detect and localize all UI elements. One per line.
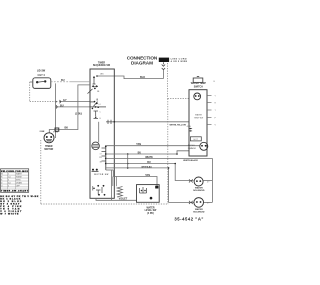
hot water solenoid [194, 177, 203, 186]
console boundary dashed (lower) [41, 140, 169, 204]
svg-text:TEMP SW: TEMP SW [194, 118, 203, 120]
timer contacts cluster A [92, 85, 94, 87]
svg-text:SOLENOID: SOLENOID [193, 190, 205, 192]
water temp switch label [191, 82, 207, 88]
svg-text:LEVEL SW: LEVEL SW [145, 210, 158, 212]
svg-text:BK: BK [65, 127, 69, 130]
wire VIOLET [96, 198, 112, 200]
wire color code table [1, 169, 29, 193]
svg-text:DRAIN: DRAIN [16, 182, 23, 185]
svg-text:3: 3 [8, 180, 9, 182]
water temp inner block [190, 137, 201, 141]
connector chevrons below line switch [162, 62, 165, 69]
wire WHITE-BLUE [106, 167, 169, 169]
water level switch box [137, 185, 160, 203]
svg-text:TAN: TAN [136, 143, 141, 146]
svg-text:TAN: TAN [145, 174, 150, 177]
timer contact bus (right inner) [105, 146, 107, 170]
wire TAN 2 [113, 177, 157, 186]
svg-text:BU: BU [138, 151, 142, 154]
console boundary dashed (right side) [167, 99, 169, 204]
timer switch blade GY/BU [90, 102, 106, 107]
wire BK from timer motor [49, 130, 59, 133]
right margin pin labels [215, 95, 217, 126]
connector BU [56, 105, 57, 108]
water level switch label [145, 206, 158, 215]
wire GY [59, 101, 90, 103]
timer motor [92, 142, 100, 150]
connector hot [189, 179, 193, 182]
connector arrow on dashed lead [56, 101, 58, 103]
dashed drop from line switch to water temp switch [168, 63, 189, 99]
svg-text:2W: 2W [99, 157, 102, 159]
svg-text:SEQUENCE SW: SEQUENCE SW [93, 65, 111, 67]
svg-text:4-6: 4-6 [8, 183, 11, 185]
plug above water temp switch [193, 78, 203, 82]
title CONNECTION DIAGRAM [127, 56, 158, 66]
timer internal contact (top) [93, 77, 96, 84]
svg-text:WATER: WATER [195, 208, 203, 211]
svg-text:2-6: 2-6 [8, 177, 11, 179]
timer box [90, 69, 114, 198]
water temp inner text [194, 114, 203, 120]
connector box on BK [55, 128, 59, 131]
svg-text:WHITE-YELLOW: WHITE-YELLOW [170, 125, 186, 127]
wire WHITE-YELLOW [106, 121, 189, 123]
timer label [93, 63, 111, 68]
svg-text:4 BU: 4 BU [187, 126, 192, 128]
svg-text:1 COLD: 1 COLD [188, 145, 196, 147]
svg-text:BU: BU [60, 104, 64, 107]
timer contacts cluster B [94, 111, 99, 119]
lid switch left stub [30, 81, 33, 83]
water temp top switch [194, 93, 201, 100]
svg-text:SW.CONN.FOR.MOD: SW.CONN.FOR.MOD [1, 171, 28, 173]
svg-text:TIMER.SW.CHART: TIMER.SW.CHART [1, 190, 29, 193]
svg-text:W: W [1, 174, 3, 176]
svg-text:WHITE-BU: WHITE-BU [141, 166, 152, 168]
svg-text:1: 1 [8, 174, 9, 176]
timer bus exit stub [106, 169, 114, 171]
motor (lower left circle) [44, 133, 54, 143]
svg-text:MOTOR: MOTOR [44, 148, 53, 151]
line switch (filled) [159, 58, 169, 62]
lid switch [33, 78, 51, 89]
svg-text:BU: BU [61, 79, 65, 82]
lid switch label [37, 70, 46, 77]
line switch label [171, 58, 188, 63]
cold solenoid label [193, 208, 205, 214]
water level contacts [140, 187, 147, 193]
svg-text:WATER: WATER [195, 114, 203, 117]
svg-text:MOTOR SW: MOTOR SW [94, 174, 108, 176]
svg-text:LID SW: LID SW [37, 70, 46, 73]
svg-text:RINSE: RINSE [16, 177, 23, 179]
notes text block [0, 196, 38, 216]
pressure spring [117, 187, 123, 198]
junction bus x=127.7 [127, 154, 129, 168]
svg-text:4 GY 4: 4 GY 4 [37, 74, 45, 77]
terminal block (filled) [155, 186, 158, 189]
svg-text:35-4542 "A": 35-4542 "A" [174, 217, 203, 222]
contacts on white-yellow [108, 120, 111, 124]
timer bottom contacts [92, 169, 94, 171]
lid switch right stub + labels [51, 81, 70, 83]
svg-text:1 PK: 1 PK [53, 132, 58, 134]
svg-text:5: 5 [8, 186, 9, 188]
svg-text:4 OR 5 WIRE: 4 OR 5 WIRE [171, 60, 188, 63]
svg-text:2 BK: 2 BK [40, 131, 45, 133]
wire BU 3 [106, 163, 175, 165]
wire BLK from line switch to timer [162, 70, 164, 79]
wire BU lid switch to timer [70, 81, 90, 83]
water temp bottom switch [200, 142, 208, 150]
timer tail verticals [111, 170, 113, 200]
labels cold/warm [188, 145, 196, 150]
svg-text:WASH: WASH [16, 173, 22, 176]
svg-text:WATER: WATER [146, 206, 154, 209]
connector cold [189, 201, 193, 204]
svg-text:2 WARM: 2 WARM [188, 147, 196, 150]
feed to timer motor [98, 122, 100, 143]
svg-text:SOLENOID: SOLENOID [193, 212, 205, 214]
svg-text:W 7 WHITE: W 7 WHITE [0, 214, 19, 216]
svg-text:DIAGRAM: DIAGRAM [131, 60, 153, 65]
connector GY [60, 100, 61, 103]
svg-text:BLK: BLK [140, 76, 145, 79]
svg-text:WATER: WATER [195, 187, 203, 190]
water level contact dot [150, 197, 153, 200]
svg-text:SWITCH: SWITCH [194, 86, 203, 88]
wire BU [56, 106, 91, 108]
svg-text:(4 PK): (4 PK) [147, 212, 154, 215]
hot solenoid label [193, 187, 205, 193]
svg-text:SPIN: SPIN [16, 180, 21, 182]
wire WHITE common [106, 157, 212, 159]
wire BU 2 [106, 153, 177, 155]
harness vertical from lid switch [55, 83, 57, 138]
svg-text:WHITE: WHITE [145, 156, 153, 159]
timer bottom cluster2 [93, 188, 95, 190]
svg-text:GY: GY [63, 99, 67, 102]
cold water solenoid [194, 198, 204, 208]
svg-text:VIOLET: VIOLET [119, 198, 128, 201]
svg-text:(1 BU): (1 BU) [75, 113, 82, 116]
water temperature switch box [189, 90, 207, 156]
svg-text:WHITE-BLACK: WHITE-BLACK [183, 159, 198, 162]
svg-text:BU: BU [147, 161, 151, 164]
wire TAN [106, 145, 200, 147]
console boundary dashed (upper left) [30, 82, 56, 102]
